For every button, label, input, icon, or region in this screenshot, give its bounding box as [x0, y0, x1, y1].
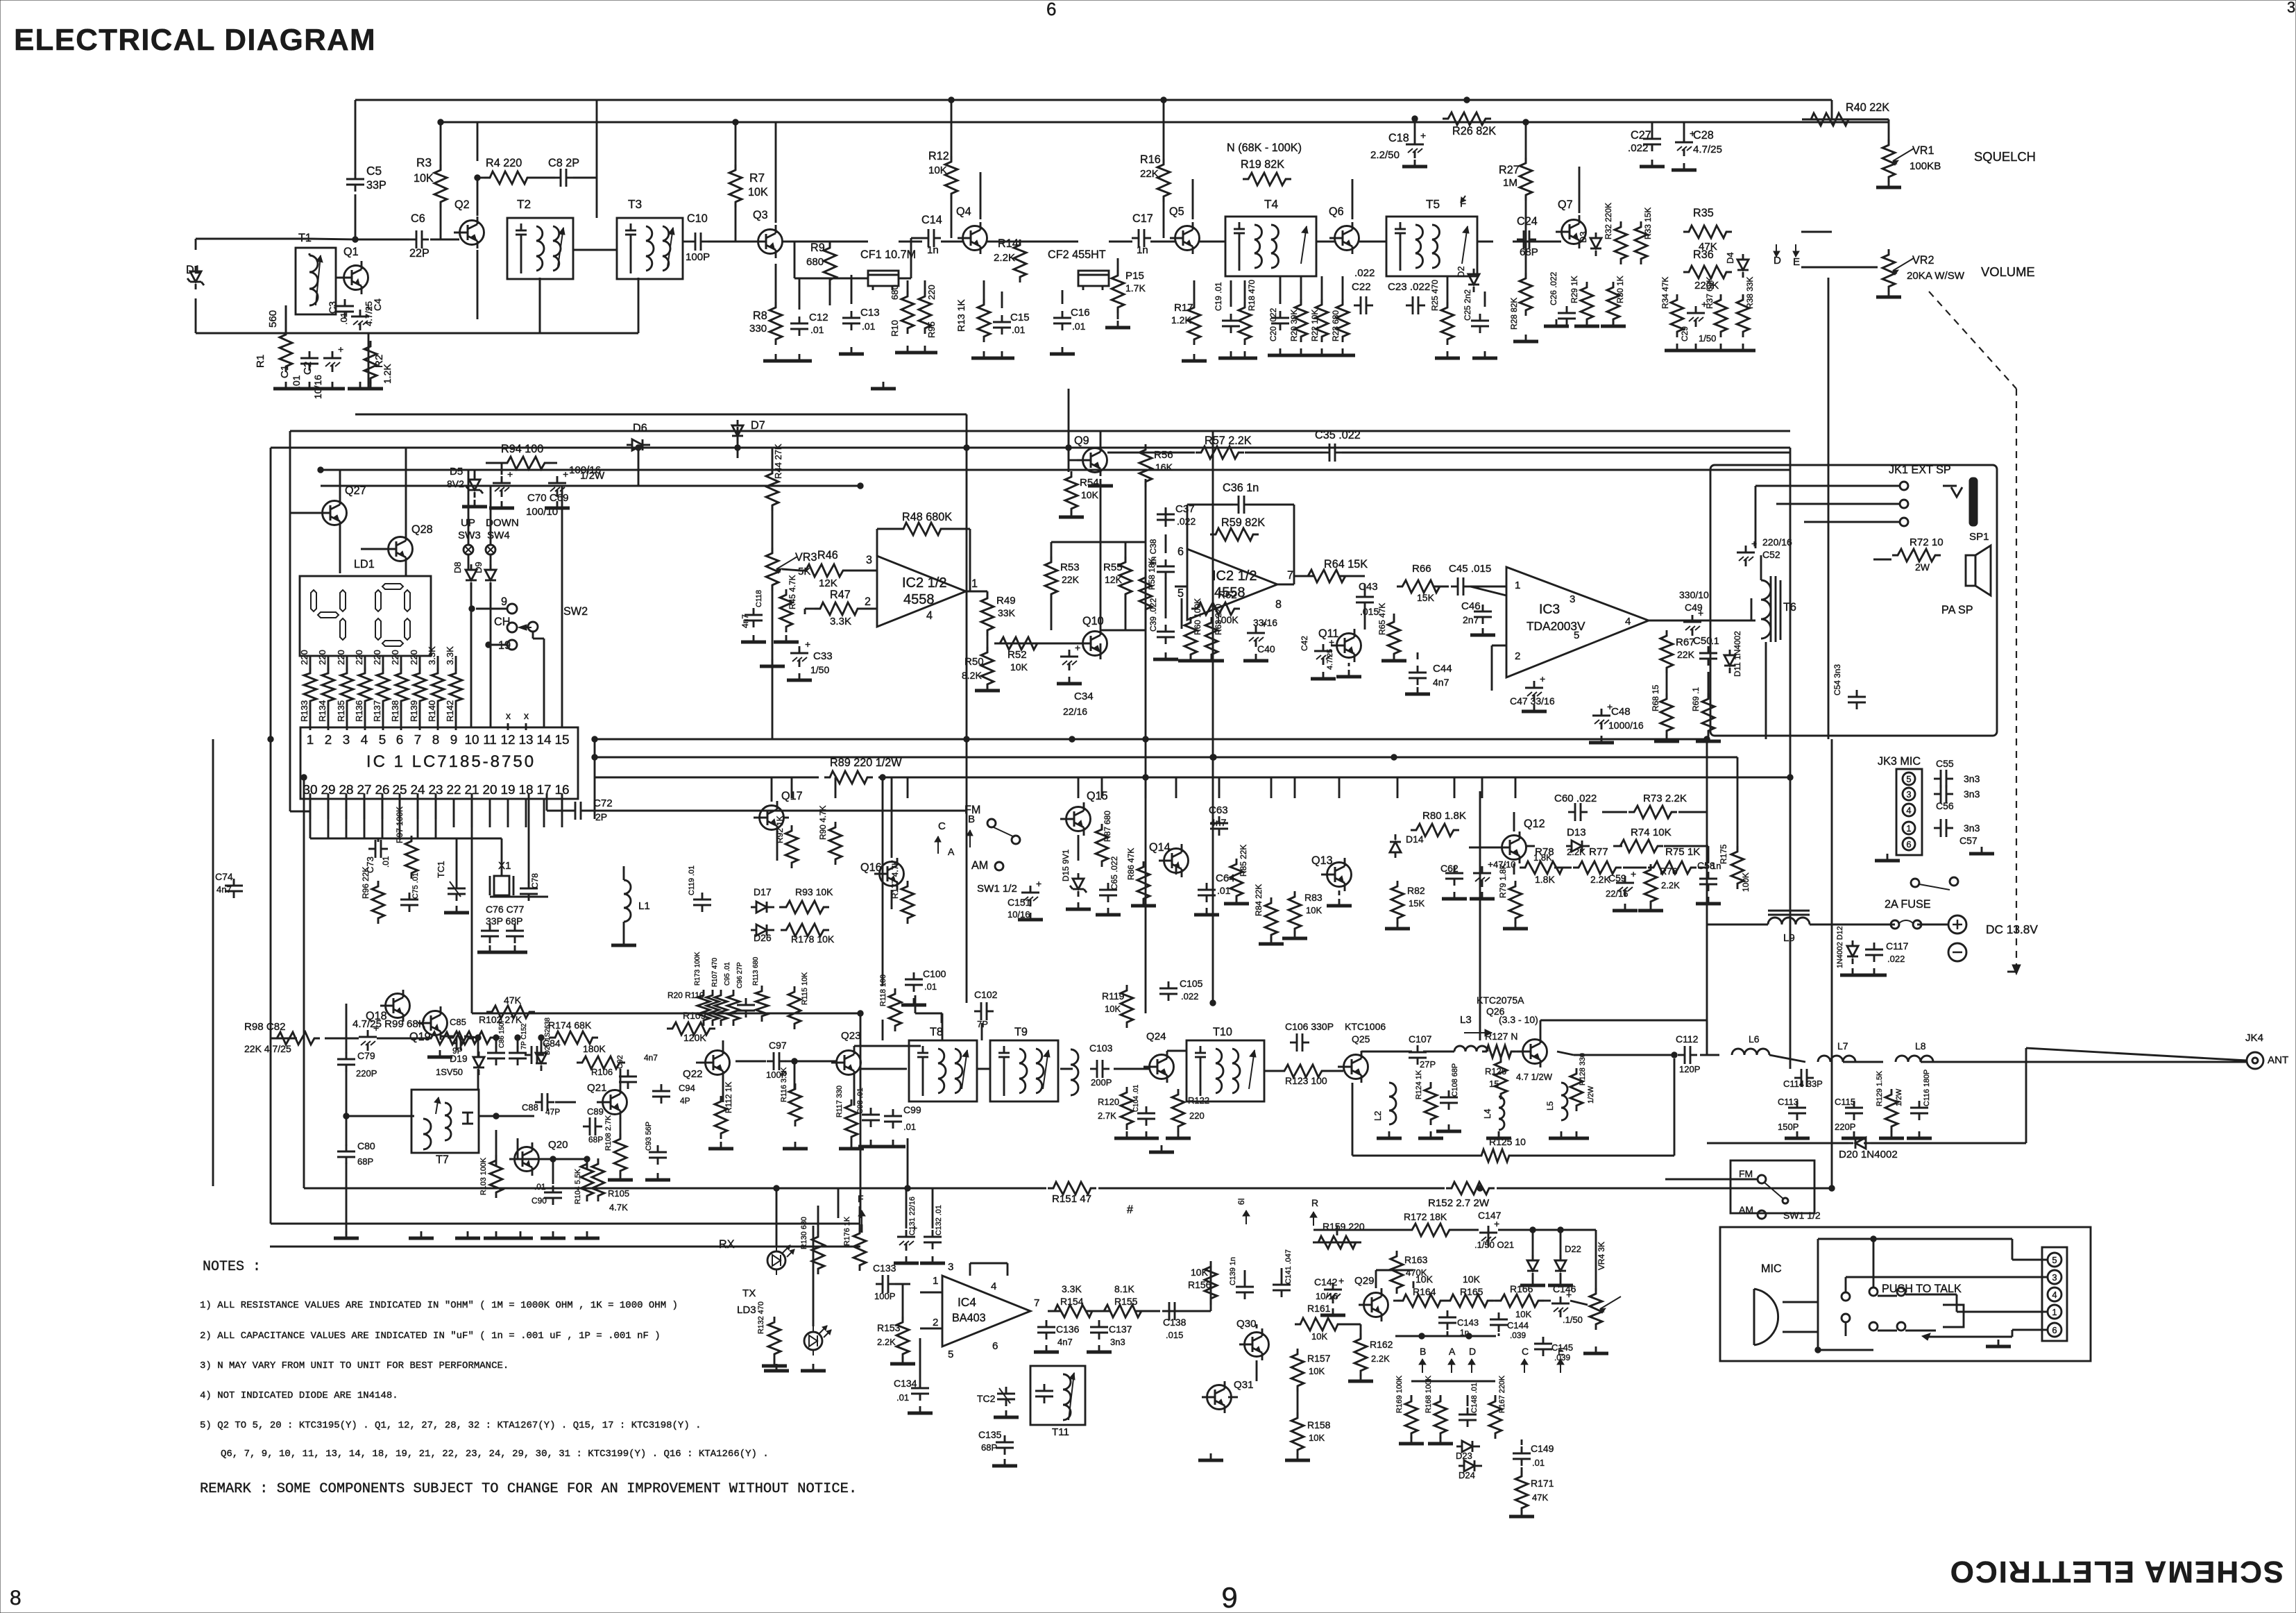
svg-text:1/2W: 1/2W	[1895, 1088, 1903, 1106]
svg-text:10K: 10K	[1415, 1274, 1434, 1285]
svg-text:33/16: 33/16	[1253, 617, 1277, 628]
svg-text:L4: L4	[1482, 1109, 1493, 1119]
svg-text:220: 220	[372, 650, 382, 665]
svg-text:R38 33K: R38 33K	[1745, 277, 1755, 309]
svg-text:R68 15: R68 15	[1651, 684, 1660, 711]
svg-text:C117: C117	[1886, 940, 1909, 952]
svg-text:R56: R56	[1154, 449, 1173, 461]
svg-text:C19 .01: C19 .01	[1214, 282, 1223, 311]
svg-text:C25 2n2: C25 2n2	[1463, 289, 1472, 321]
svg-text:4.7K: 4.7K	[609, 1202, 628, 1213]
svg-text:3n3: 3n3	[1964, 788, 1980, 800]
svg-text:C49: C49	[1685, 602, 1703, 613]
svg-text:R103 100K: R103 100K	[479, 1157, 488, 1195]
svg-text:3: 3	[2052, 1272, 2057, 1283]
svg-text:C80: C80	[357, 1140, 375, 1151]
svg-text:VR1: VR1	[1912, 144, 1934, 157]
svg-text:R22 10K: R22 10K	[1310, 310, 1320, 341]
svg-text:C45 .015: C45 .015	[1449, 563, 1491, 575]
svg-text:R134: R134	[317, 700, 328, 722]
svg-text:.015: .015	[1360, 606, 1379, 617]
svg-text:1n C38: 1n C38	[1148, 539, 1158, 566]
svg-text:R33 15K: R33 15K	[1643, 208, 1653, 239]
svg-text:10/16: 10/16	[312, 375, 323, 399]
svg-text:.01: .01	[862, 321, 876, 332]
svg-text:VR2: VR2	[1912, 254, 1934, 267]
svg-text:R137: R137	[372, 700, 382, 722]
svg-text:C13: C13	[860, 307, 880, 319]
svg-text:C75 .01: C75 .01	[411, 872, 420, 899]
svg-text:10K: 10K	[928, 164, 947, 176]
svg-text:R156: R156	[1188, 1279, 1211, 1290]
svg-text:C18: C18	[1388, 132, 1409, 144]
svg-text:+: +	[1631, 868, 1636, 879]
svg-text:R32 220K: R32 220K	[1604, 203, 1613, 239]
svg-text:L3: L3	[1460, 1014, 1472, 1026]
svg-text:R117 330: R117 330	[835, 1086, 844, 1117]
svg-text:10K: 10K	[748, 186, 768, 199]
svg-text:2.2K: 2.2K	[1371, 1353, 1390, 1364]
svg-text:6I: 6I	[1236, 1198, 1246, 1205]
svg-text:R72 10: R72 10	[1910, 537, 1944, 548]
svg-text:C33: C33	[813, 650, 833, 662]
svg-text:Q31: Q31	[1234, 1379, 1254, 1391]
svg-text:.01: .01	[810, 324, 824, 335]
svg-text:R122: R122	[1188, 1095, 1209, 1106]
svg-text:C54 3n3: C54 3n3	[1832, 664, 1842, 695]
svg-text:2A FUSE: 2A FUSE	[1885, 898, 1931, 911]
svg-text:PA SP: PA SP	[1941, 604, 1973, 616]
svg-text:C63: C63	[1209, 804, 1228, 816]
svg-text:220: 220	[409, 650, 419, 665]
svg-text:11: 11	[483, 733, 497, 748]
svg-text:C: C	[938, 820, 946, 832]
svg-text:C114 33P: C114 33P	[1783, 1079, 1823, 1089]
svg-text:R105: R105	[608, 1188, 629, 1199]
svg-text:ANT: ANT	[2268, 1054, 2288, 1066]
svg-text:200P: 200P	[1091, 1077, 1112, 1088]
svg-text:Q20: Q20	[548, 1139, 568, 1151]
svg-text:4n7: 4n7	[1057, 1337, 1073, 1347]
svg-text:47P: 47P	[545, 1107, 560, 1117]
svg-text:x: x	[524, 710, 529, 721]
svg-text:T9: T9	[1014, 1026, 1028, 1038]
svg-text:22/16: 22/16	[1063, 706, 1087, 717]
svg-text:8.1K: 8.1K	[1114, 1283, 1134, 1294]
svg-text:SW2: SW2	[563, 605, 588, 618]
svg-text:15K: 15K	[1417, 592, 1435, 603]
svg-text:8: 8	[10, 1587, 22, 1610]
svg-text:15: 15	[554, 733, 569, 748]
svg-text:4: 4	[1906, 805, 1911, 816]
svg-text:10K: 10K	[1463, 1274, 1481, 1285]
svg-text:R69 .1: R69 .1	[1691, 687, 1701, 711]
svg-text:5: 5	[948, 1349, 953, 1360]
svg-text:2: 2	[1515, 650, 1520, 662]
svg-text:C4: C4	[372, 298, 383, 311]
svg-text:T2: T2	[517, 197, 531, 211]
svg-text:R1: R1	[255, 355, 266, 368]
svg-text:6: 6	[1177, 546, 1184, 558]
svg-text:.1/50 O21: .1/50 O21	[1474, 1240, 1514, 1250]
svg-text:680: 680	[890, 285, 900, 300]
svg-text:10: 10	[464, 733, 479, 748]
svg-text:C136: C136	[1056, 1324, 1080, 1335]
svg-text:10K: 10K	[1309, 1366, 1325, 1376]
svg-text:R44 27K: R44 27K	[773, 444, 783, 479]
svg-text:.01: .01	[291, 375, 302, 389]
svg-text:Q16: Q16	[860, 861, 882, 874]
svg-text:KTC2075A: KTC2075A	[1477, 995, 1524, 1006]
svg-text:3.3K: 3.3K	[830, 616, 851, 627]
svg-text:C134: C134	[894, 1378, 917, 1389]
svg-text:22K: 22K	[1062, 574, 1080, 585]
svg-text:5) Q2 TO 5, 20 : KTC3195(Y) .: 5) Q2 TO 5, 20 : KTC3195(Y) . Q1, 12, 27…	[200, 1420, 701, 1431]
svg-text:1.2K: 1.2K	[1171, 314, 1191, 326]
svg-text:.022: .022	[1628, 142, 1648, 154]
svg-text:T11: T11	[1052, 1426, 1069, 1438]
svg-text:N (68K - 100K): N (68K - 100K)	[1227, 142, 1302, 154]
svg-text:22: 22	[446, 783, 461, 797]
svg-text:FM: FM	[1739, 1168, 1753, 1179]
svg-text:R74 10K: R74 10K	[1631, 827, 1672, 838]
svg-text:R165: R165	[1460, 1286, 1483, 1297]
svg-text:2.2K: 2.2K	[877, 1337, 896, 1347]
svg-text:C137: C137	[1109, 1324, 1132, 1335]
svg-text:R171: R171	[1531, 1478, 1554, 1489]
svg-text:9: 9	[1221, 1581, 1237, 1613]
svg-text:T4: T4	[1264, 197, 1279, 211]
svg-text:D: D	[1469, 1346, 1476, 1357]
svg-text:C6: C6	[411, 212, 425, 225]
svg-text:220: 220	[299, 650, 309, 665]
svg-text:C52: C52	[1762, 549, 1780, 560]
svg-text:R157: R157	[1307, 1353, 1331, 1364]
svg-text:8: 8	[1275, 598, 1282, 611]
svg-text:C93 56P: C93 56P	[645, 1122, 653, 1151]
svg-text:R162: R162	[1370, 1339, 1393, 1350]
svg-text:.039: .039	[1510, 1331, 1527, 1340]
svg-text:D3: D3	[1578, 231, 1588, 243]
svg-text:6: 6	[396, 733, 404, 748]
svg-text:33P 68P: 33P 68P	[486, 915, 522, 927]
svg-text:3.3K: 3.3K	[427, 646, 437, 665]
svg-text:4.7/25: 4.7/25	[1326, 649, 1334, 670]
svg-text:.01: .01	[903, 1122, 916, 1132]
svg-text:B: B	[1420, 1346, 1426, 1357]
svg-text:3: 3	[1570, 593, 1575, 605]
svg-text:5: 5	[1906, 774, 1911, 784]
svg-text:C2: C2	[302, 362, 314, 375]
svg-text:C90: C90	[532, 1196, 547, 1206]
svg-text:R104 5.5K: R104 5.5K	[574, 1168, 582, 1204]
svg-text:68P: 68P	[981, 1442, 997, 1453]
svg-text:C27: C27	[1631, 129, 1651, 142]
svg-text:Q12: Q12	[1524, 818, 1545, 830]
svg-text:C17: C17	[1132, 212, 1153, 225]
svg-text:Q9: Q9	[1074, 434, 1089, 447]
svg-text:Q6, 7, 9, 10, 11, 13, 14, 18,: Q6, 7, 9, 10, 11, 13, 14, 18, 19, 21, 22…	[221, 1449, 769, 1460]
svg-text:1/2W: 1/2W	[1587, 1086, 1595, 1104]
svg-text:T3: T3	[628, 197, 642, 211]
svg-text:22/16: 22/16	[1606, 888, 1629, 899]
svg-text:3: 3	[343, 733, 350, 748]
svg-text:5: 5	[1177, 587, 1184, 600]
svg-text:D7: D7	[751, 419, 765, 432]
svg-text:R136: R136	[354, 700, 364, 722]
svg-text:R26 82K: R26 82K	[1452, 125, 1496, 137]
svg-text:R178 10K: R178 10K	[791, 934, 835, 945]
svg-text:220/16: 220/16	[1762, 537, 1792, 548]
svg-text:1.8K: 1.8K	[1535, 874, 1555, 885]
svg-text:R119: R119	[1102, 990, 1125, 1002]
svg-text:C76 C77: C76 C77	[486, 904, 524, 915]
svg-text:D25 1S2638: D25 1S2638	[544, 1017, 552, 1055]
svg-text:C60 .022: C60 .022	[1554, 793, 1597, 804]
svg-text:R46: R46	[817, 549, 838, 561]
svg-text:R25 470: R25 470	[1430, 280, 1440, 311]
svg-text:2: 2	[865, 596, 871, 608]
svg-text:C16: C16	[1071, 307, 1090, 319]
svg-text:Q7: Q7	[1558, 199, 1573, 211]
svg-text:C115: C115	[1835, 1097, 1855, 1107]
svg-text:4.7 1/2W: 4.7 1/2W	[1516, 1072, 1553, 1082]
svg-text:R53: R53	[1060, 561, 1080, 573]
svg-text:4558: 4558	[903, 592, 935, 607]
svg-text:C89: C89	[587, 1106, 604, 1117]
svg-text:1: 1	[2052, 1307, 2057, 1317]
svg-text:C57: C57	[1959, 835, 1978, 846]
svg-text:C108 68P: C108 68P	[1451, 1063, 1459, 1097]
svg-text:3: 3	[1906, 789, 1911, 800]
svg-text:C99: C99	[903, 1104, 921, 1115]
svg-text:5: 5	[379, 733, 386, 748]
svg-text:R113 680: R113 680	[752, 956, 760, 986]
svg-text:R48 680K: R48 680K	[902, 511, 952, 523]
svg-text:FM: FM	[964, 804, 980, 816]
svg-text:R66: R66	[1412, 563, 1431, 575]
svg-text:C39 .022: C39 .022	[1148, 598, 1158, 632]
svg-text:6: 6	[2052, 1325, 2057, 1335]
svg-text:D6: D6	[633, 422, 647, 434]
svg-text:6: 6	[1046, 0, 1056, 19]
svg-text:R4 220: R4 220	[486, 157, 522, 169]
svg-text:D: D	[1774, 255, 1781, 267]
svg-text:C12: C12	[809, 312, 828, 323]
svg-text:220: 220	[390, 650, 400, 665]
svg-text:2W: 2W	[1915, 561, 1930, 573]
svg-text:R126: R126	[1485, 1066, 1506, 1076]
svg-text:C139 1n: C139 1n	[1229, 1257, 1237, 1285]
svg-text:Q3: Q3	[753, 209, 768, 221]
svg-text:C141 .047: C141 .047	[1284, 1249, 1293, 1284]
svg-text:R62: R62	[1218, 589, 1237, 601]
svg-text:10K: 10K	[1105, 1004, 1121, 1014]
svg-text:1.7K: 1.7K	[1125, 282, 1146, 294]
svg-text:C116 180P: C116 180P	[1923, 1070, 1931, 1106]
svg-text:.015: .015	[1166, 1330, 1183, 1340]
svg-text:C29: C29	[1680, 326, 1690, 341]
svg-text:LD3: LD3	[737, 1304, 756, 1316]
svg-text:1: 1	[971, 577, 978, 590]
svg-text:D24: D24	[1459, 1470, 1475, 1480]
svg-text:.01: .01	[1217, 885, 1231, 896]
svg-text:4: 4	[1625, 616, 1631, 627]
svg-text:Q29: Q29	[1354, 1275, 1375, 1287]
svg-text:1000/16: 1000/16	[1608, 720, 1644, 731]
svg-text:C44: C44	[1433, 663, 1452, 675]
svg-text:DC 13.8V: DC 13.8V	[1986, 922, 2038, 936]
svg-text:1: 1	[933, 1275, 938, 1287]
svg-text:+: +	[1540, 673, 1545, 684]
svg-text:C142: C142	[1314, 1276, 1338, 1287]
svg-text:R163: R163	[1404, 1254, 1428, 1265]
svg-text:D11 1N4002: D11 1N4002	[1733, 631, 1742, 677]
svg-text:C85: C85	[450, 1017, 466, 1027]
svg-text:R10: R10	[890, 320, 900, 337]
svg-text:3.3K: 3.3K	[445, 646, 455, 665]
svg-text:NOTES :: NOTES :	[203, 1259, 261, 1275]
svg-text:2.2/50: 2.2/50	[1370, 149, 1400, 161]
svg-text:R27: R27	[1499, 164, 1520, 176]
svg-text:C1: C1	[279, 365, 291, 378]
svg-text:330: 330	[749, 323, 767, 335]
svg-text:D15 9V1: D15 9V1	[1061, 849, 1071, 881]
svg-text:F: F	[858, 1193, 864, 1204]
svg-text:3: 3	[866, 554, 872, 566]
svg-text:100P: 100P	[686, 251, 710, 263]
svg-text:R19 82K: R19 82K	[1241, 158, 1284, 171]
svg-text:R23 680: R23 680	[1331, 310, 1341, 341]
svg-text:4P: 4P	[680, 1096, 690, 1106]
svg-text:C: C	[1522, 1346, 1529, 1357]
svg-text:R28 82K: R28 82K	[1509, 298, 1519, 330]
svg-text:R151 47: R151 47	[1052, 1193, 1091, 1205]
svg-text:VR3: VR3	[795, 551, 817, 564]
svg-text:R9: R9	[810, 242, 825, 254]
svg-text:R127 N: R127 N	[1485, 1031, 1517, 1042]
svg-text:C132 .01: C132 .01	[935, 1205, 943, 1235]
svg-text:TC2: TC2	[977, 1393, 996, 1404]
svg-text:C103: C103	[1089, 1042, 1113, 1054]
svg-text:.01: .01	[1072, 321, 1086, 332]
svg-text:JK1 EXT SP: JK1 EXT SP	[1889, 464, 1951, 476]
svg-text:C131 22/16: C131 22/16	[908, 1197, 917, 1235]
svg-text:R87 680: R87 680	[1103, 811, 1112, 842]
svg-text:150P: 150P	[1778, 1122, 1798, 1132]
svg-text:C26 .022: C26 .022	[1549, 271, 1558, 305]
svg-text:D9: D9	[473, 561, 484, 573]
svg-text:R85 22K: R85 22K	[1239, 845, 1248, 877]
svg-text:220: 220	[926, 285, 937, 300]
svg-text:C107: C107	[1409, 1033, 1432, 1045]
svg-text:R98 C82: R98 C82	[244, 1021, 286, 1033]
svg-text:33P: 33P	[366, 179, 386, 192]
svg-text:PUSH TO TALK: PUSH TO TALK	[1882, 1283, 1962, 1295]
svg-text:C102: C102	[974, 989, 998, 1000]
svg-text:R161: R161	[1307, 1303, 1331, 1314]
svg-text:D4: D4	[1725, 252, 1735, 264]
svg-text:+: +	[1329, 636, 1334, 648]
svg-text:C118: C118	[755, 590, 763, 607]
svg-text:10K: 10K	[1306, 905, 1322, 915]
svg-text:C36 1n: C36 1n	[1223, 482, 1259, 494]
svg-text:33K: 33K	[998, 607, 1016, 618]
svg-text:1n: 1n	[927, 244, 939, 256]
svg-text:D8: D8	[452, 561, 463, 573]
svg-text:L7: L7	[1837, 1040, 1848, 1052]
svg-text:3n3: 3n3	[1110, 1337, 1125, 1347]
svg-text:C46: C46	[1461, 600, 1481, 612]
svg-text:X1: X1	[498, 860, 511, 872]
svg-text:IC2 1/2: IC2 1/2	[902, 575, 946, 591]
svg-text:15K: 15K	[1409, 898, 1425, 909]
svg-text:Q21: Q21	[587, 1082, 607, 1094]
svg-text:100KB: 100KB	[1910, 160, 1941, 172]
svg-text:1: 1	[1515, 580, 1520, 591]
svg-text:2n7: 2n7	[1463, 614, 1479, 625]
svg-text:R8: R8	[753, 310, 767, 322]
svg-text:R138: R138	[390, 700, 400, 722]
svg-text:R29 1K: R29 1K	[1570, 276, 1579, 303]
svg-text:C48: C48	[1611, 706, 1631, 718]
svg-text:C8 2P: C8 2P	[548, 157, 579, 169]
svg-text:R82: R82	[1407, 885, 1425, 896]
svg-text:Q14: Q14	[1149, 841, 1171, 854]
svg-text:3: 3	[2287, 0, 2295, 16]
svg-text:D5: D5	[450, 466, 463, 478]
svg-text:22P: 22P	[409, 247, 430, 260]
svg-text:C50: C50	[1693, 635, 1712, 647]
svg-text:1/50: 1/50	[810, 664, 829, 675]
svg-text:10K: 10K	[1191, 1267, 1209, 1278]
svg-text:C133: C133	[873, 1262, 896, 1274]
svg-text:.022: .022	[1887, 954, 1905, 964]
svg-text:C24: C24	[1517, 215, 1538, 228]
svg-text:.022: .022	[1181, 991, 1198, 1002]
svg-text:10K: 10K	[1311, 1331, 1327, 1342]
svg-text:Q22: Q22	[683, 1068, 703, 1080]
svg-text:T5: T5	[1426, 197, 1440, 211]
svg-text:R35: R35	[1693, 207, 1714, 219]
svg-text:9: 9	[450, 733, 458, 748]
svg-text:IC2 1/2: IC2 1/2	[1212, 568, 1257, 584]
svg-text:C138: C138	[1163, 1317, 1187, 1328]
svg-text:C20 .022: C20 .022	[1268, 307, 1278, 341]
svg-text:C65 .022: C65 .022	[1109, 856, 1119, 890]
svg-text:Q4: Q4	[956, 205, 971, 218]
svg-text:C149: C149	[1531, 1443, 1554, 1454]
svg-text:C40: C40	[1257, 643, 1275, 655]
svg-text:C143: C143	[1457, 1317, 1479, 1328]
svg-text:3) N MAY VARY FROM UNIT TO UNI: 3) N MAY VARY FROM UNIT TO UNIT FOR BEST…	[200, 1360, 509, 1371]
svg-text:R152 2.7 2W: R152 2.7 2W	[1428, 1197, 1490, 1209]
svg-text:C96 27P: C96 27P	[736, 962, 744, 988]
svg-text:2.2K: 2.2K	[1567, 847, 1585, 857]
svg-text:.01: .01	[924, 981, 937, 992]
svg-text:C62: C62	[1440, 863, 1459, 874]
svg-text:22K: 22K	[1677, 649, 1695, 660]
svg-text:68P: 68P	[357, 1156, 373, 1167]
svg-text:R52: R52	[1007, 649, 1027, 661]
svg-text:T8: T8	[930, 1026, 943, 1038]
svg-text:220: 220	[1189, 1110, 1205, 1121]
svg-text:2: 2	[325, 733, 332, 748]
svg-text:.01: .01	[1532, 1458, 1545, 1468]
svg-text:1) ALL RESISTANCE VALUES ARE I: 1) ALL RESISTANCE VALUES ARE INDICATED I…	[200, 1300, 678, 1311]
svg-text:12: 12	[500, 733, 515, 748]
svg-text:5: 5	[2052, 1255, 2057, 1265]
